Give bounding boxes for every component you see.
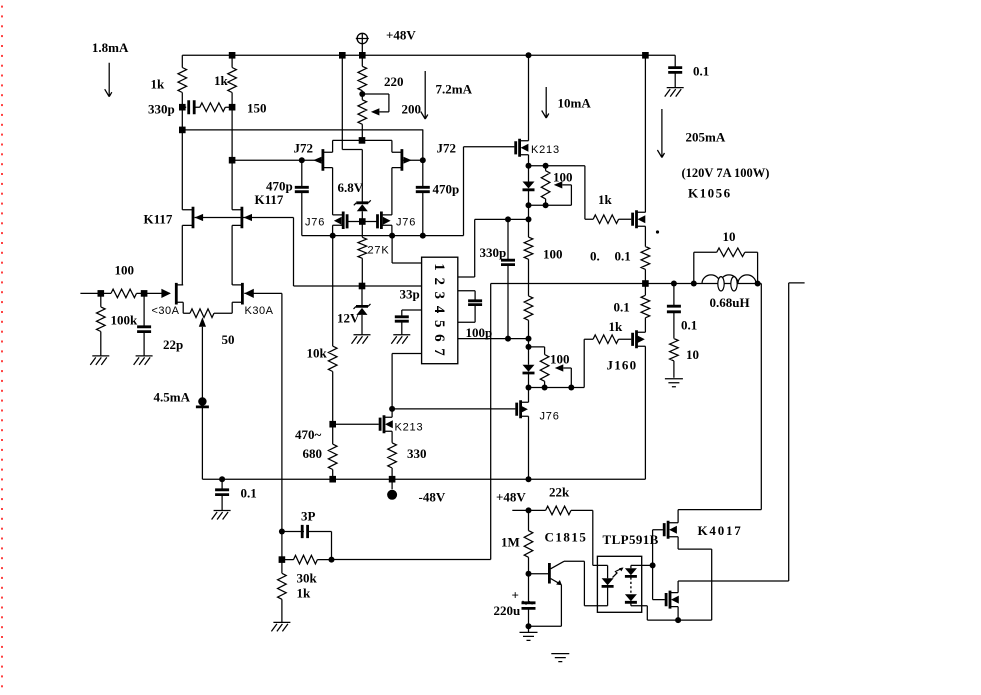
svg-text:3P: 3P	[301, 509, 316, 524]
svg-text:K4017: K4017	[698, 523, 743, 538]
svg-text:22p: 22p	[163, 337, 183, 352]
svg-text:150: 150	[247, 101, 267, 116]
svg-text:4.5mA: 4.5mA	[154, 390, 191, 405]
svg-text:0.1: 0.1	[693, 64, 709, 79]
svg-text:K213: K213	[395, 422, 424, 434]
svg-text:1k: 1k	[297, 586, 312, 601]
svg-text:1: 1	[431, 263, 447, 271]
svg-text:0.1: 0.1	[241, 486, 257, 501]
svg-text:100: 100	[553, 170, 573, 185]
svg-text:330p: 330p	[480, 245, 507, 260]
svg-text:J72: J72	[437, 141, 457, 156]
svg-text:680: 680	[303, 446, 323, 461]
svg-text:+48V: +48V	[496, 490, 526, 505]
svg-text:12V: 12V	[337, 311, 360, 326]
svg-text:10: 10	[686, 347, 699, 362]
svg-text:4: 4	[431, 306, 447, 314]
svg-text:(120V 7A 100W): (120V 7A 100W)	[682, 166, 770, 180]
svg-text:TLP591B: TLP591B	[603, 532, 659, 547]
svg-text:1M: 1M	[501, 535, 520, 550]
svg-text:-48V: -48V	[419, 490, 446, 505]
svg-text:+: +	[512, 588, 519, 603]
svg-text:200: 200	[402, 102, 422, 117]
svg-text:<30A: <30A	[152, 305, 180, 317]
svg-text:K30A: K30A	[245, 305, 274, 317]
svg-text:7: 7	[431, 348, 447, 356]
svg-text:2: 2	[431, 277, 447, 285]
svg-text:+48V: +48V	[386, 28, 416, 43]
svg-text:J76: J76	[396, 217, 416, 229]
svg-text:10: 10	[723, 229, 736, 244]
svg-text:100p: 100p	[466, 325, 493, 340]
svg-text:220u: 220u	[494, 603, 521, 618]
svg-text:22k: 22k	[549, 485, 570, 500]
svg-text:K213: K213	[531, 144, 560, 156]
svg-text:3: 3	[431, 292, 447, 300]
svg-text:1k: 1k	[598, 192, 613, 207]
svg-text:1.8mA: 1.8mA	[92, 40, 129, 55]
svg-text:50: 50	[222, 332, 235, 347]
svg-text:6: 6	[431, 334, 447, 342]
svg-text:J76: J76	[305, 217, 325, 229]
svg-text:10mA: 10mA	[558, 96, 592, 111]
svg-text:0.68uH: 0.68uH	[710, 295, 750, 310]
svg-text:7.2mA: 7.2mA	[436, 82, 473, 97]
svg-text:220: 220	[384, 74, 404, 89]
svg-text:100: 100	[550, 352, 570, 367]
svg-text:K1056: K1056	[688, 186, 732, 201]
svg-text:100: 100	[543, 247, 563, 262]
svg-text:5: 5	[431, 320, 447, 328]
svg-text:1k: 1k	[609, 319, 624, 334]
svg-text:470p: 470p	[433, 182, 460, 197]
svg-text:J76: J76	[540, 411, 560, 423]
svg-text:0.1: 0.1	[615, 249, 631, 264]
svg-text:6.8V: 6.8V	[338, 180, 364, 195]
svg-text:205mA: 205mA	[686, 130, 726, 145]
svg-text:27K: 27K	[368, 245, 390, 257]
svg-text:470p: 470p	[266, 179, 293, 194]
svg-text:10k: 10k	[307, 346, 328, 361]
svg-text:1k: 1k	[151, 77, 166, 92]
svg-text:330: 330	[407, 446, 427, 461]
svg-text:0.1: 0.1	[614, 300, 630, 315]
svg-text:30k: 30k	[297, 571, 318, 586]
svg-text:470~: 470~	[295, 427, 322, 442]
svg-text:J72: J72	[294, 141, 314, 156]
svg-text:100k: 100k	[111, 313, 139, 328]
svg-text:K117: K117	[144, 212, 173, 227]
svg-text:100: 100	[115, 263, 135, 278]
svg-text:1k: 1k	[214, 73, 229, 88]
svg-text:330p: 330p	[148, 102, 175, 117]
svg-text:J160: J160	[607, 358, 638, 373]
svg-text:0.1: 0.1	[681, 318, 697, 333]
svg-text:33p: 33p	[400, 287, 420, 302]
svg-text:0.: 0.	[590, 249, 600, 264]
svg-text:K117: K117	[255, 192, 284, 207]
svg-text:C1815: C1815	[545, 530, 588, 545]
